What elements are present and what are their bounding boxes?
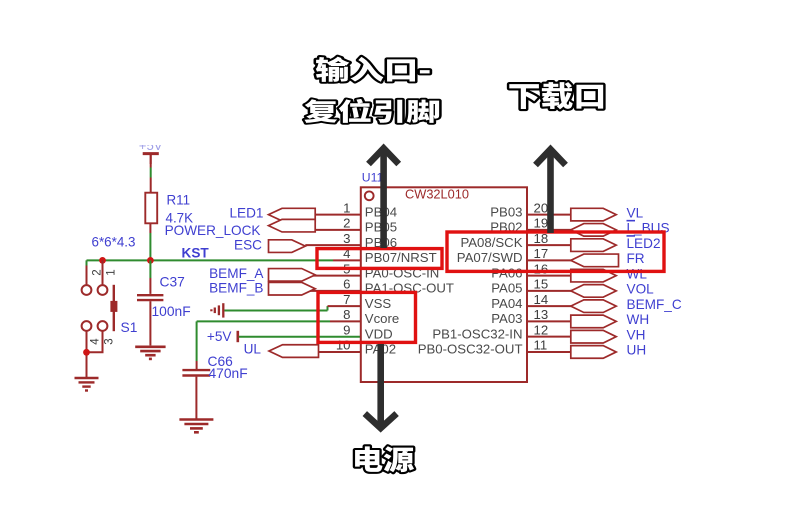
highlight box PB07/NRST [317,249,442,269]
caption shurukou (input port-) [316,57,430,82]
svg-text:C37: C37 [160,275,185,290]
svg-text:PB03: PB03 [490,204,522,219]
port BEMF_C [571,300,616,313]
wire pin 6 [305,290,361,292]
svg-text:PA08/SCK: PA08/SCK [460,235,522,250]
svg-text:PA07/SWD: PA07/SWD [457,250,523,265]
wire KST horizontal to pin 4 [87,259,334,261]
junction dot R11/C37 [147,257,154,264]
wire pin 20 [527,214,572,216]
port FR [571,254,619,267]
svg-text:WH: WH [627,312,650,327]
svg-text:UH: UH [627,343,647,358]
wire pin 13 [527,320,572,322]
svg-text:VDD: VDD [365,326,393,341]
pin-1 marker circle [365,191,374,200]
wire pin 3 [305,244,361,246]
svg-text:14: 14 [534,292,549,307]
svg-text:KST: KST [182,246,210,261]
svg-text:11: 11 [534,338,548,353]
port UL [269,345,319,358]
svg-text:PB1-OSC32-IN: PB1-OSC32-IN [432,326,522,341]
svg-text:BEMF_C: BEMF_C [627,297,682,312]
wire pin 18 [527,244,572,246]
highlight box VSS/Vcore/VDD [318,292,416,342]
wire pin 19 [527,229,572,231]
svg-text:3: 3 [104,338,116,344]
svg-text:LED1: LED1 [229,206,263,221]
wire VSS [224,310,327,312]
svg-text:1: 1 [106,269,118,275]
port LED2 [571,239,616,252]
svg-text:470nF: 470nF [209,366,248,381]
svg-text:LED2: LED2 [627,236,661,251]
caption fuwei yinjiao (reset pin) [304,99,439,123]
wire UL [319,351,361,353]
svg-text:+5V: +5V [207,329,232,344]
wire pin 10 [315,351,361,353]
svg-text:VL: VL [627,205,644,220]
op IC U11 CW32L010 body [361,187,527,382]
svg-text:PA04: PA04 [491,296,522,311]
wire pin 1 [315,214,361,216]
svg-text:19: 19 [534,216,549,231]
wire R11 to KST node [149,223,151,233]
wire pin 16 [527,275,572,277]
arrow down (power) [365,344,397,428]
highlight box SWD/SCK + LED2/FR [447,232,664,271]
wire pin 2 [315,229,361,231]
svg-text:2: 2 [343,216,350,231]
wire pin 12 [527,336,572,338]
svg-text:VSS: VSS [365,296,392,311]
svg-text:17: 17 [534,246,549,261]
svg-text:7: 7 [343,292,350,307]
capacitor C66 [182,369,210,371]
svg-text:16: 16 [534,261,549,276]
ground (rotated) for VSS [222,303,224,317]
svg-text:R11: R11 [167,193,191,208]
svg-text:VH: VH [627,327,646,342]
S1 bottom wires [86,331,88,378]
arrow up (reset pin) [369,148,399,248]
port POWER_LOCK [269,219,316,232]
wire pin 17 [527,259,572,261]
wire pin 14 [527,305,572,307]
svg-text:9: 9 [343,322,350,337]
arrow up (download port) [536,149,566,233]
svg-text:12: 12 [534,322,549,337]
wire Vcore to C66 [196,321,198,361]
svg-text:VOL: VOL [627,282,655,297]
wire +5V to R11 [150,154,152,168]
svg-text:PB0-OSC32-OUT: PB0-OSC32-OUT [418,342,523,357]
wire pin 15 [527,290,572,292]
svg-text:PA03: PA03 [491,311,522,326]
svg-text:U11: U11 [362,171,384,185]
port WL [571,269,616,282]
ground under C66 [179,418,213,421]
port ESC [269,240,306,253]
caption dianyuan (power) [355,446,414,472]
svg-text:8: 8 [343,307,350,322]
svg-text:4: 4 [90,338,102,345]
svg-text:CW32L010: CW32L010 [405,187,469,202]
junction dot S1 pin1 [99,257,106,264]
switch S1 [86,260,88,285]
port BEMF_B [269,282,316,295]
port BEMF_A [269,269,316,282]
power port +5V top (partially cropped label) [139,138,163,153]
svg-text:POWER_LOCK: POWER_LOCK [165,223,261,238]
svg-text:WL: WL [627,266,648,281]
svg-text:10: 10 [336,338,351,353]
port LED1 [269,208,316,221]
svg-text:20: 20 [534,200,549,215]
port VH [571,330,616,343]
port UH [571,346,616,359]
port L_BUS [571,224,616,237]
svg-text:13: 13 [534,307,549,322]
svg-text:FR: FR [627,251,645,266]
svg-text:S1: S1 [121,320,138,335]
svg-text:15: 15 [534,277,549,292]
svg-text:UL: UL [244,341,262,356]
svg-text:1: 1 [343,200,350,215]
svg-text:2: 2 [92,269,104,275]
svg-text:BEMF_A: BEMF_A [209,266,264,281]
svg-text:3: 3 [343,231,350,246]
wire pin 5 [305,275,361,277]
svg-text:Vcore: Vcore [365,311,399,326]
port VOL [571,285,616,298]
svg-text:6*6*4.3: 6*6*4.3 [92,235,136,250]
svg-text:6: 6 [343,277,350,292]
svg-text:PB07/NRST: PB07/NRST [365,250,437,265]
resistor R11 [145,193,157,224]
capacitor C37 [149,260,151,278]
svg-text:PA05: PA05 [491,281,522,296]
caption xiazaikou (download port) [509,82,603,109]
ground under C37 [135,345,165,348]
svg-text:BEMF_B: BEMF_B [209,280,263,295]
port WH [571,315,616,328]
svg-text:100nF: 100nF [152,304,191,319]
wire pin 11 [527,351,572,353]
port VL [571,208,616,221]
svg-text:ESC: ESC [234,238,262,253]
ground under S1 [75,377,99,379]
